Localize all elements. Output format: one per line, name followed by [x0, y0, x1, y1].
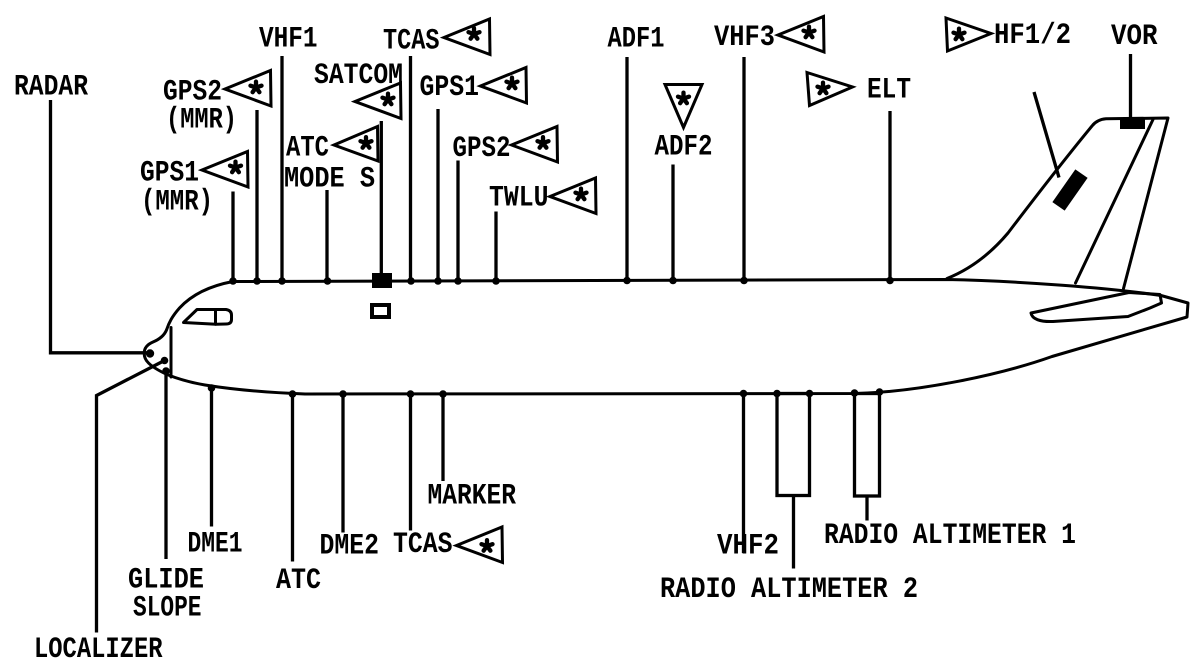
- svg-text:(MMR): (MMR): [141, 186, 213, 220]
- svg-text:TCAS: TCAS: [383, 25, 440, 59]
- svg-text:ADF2: ADF2: [655, 131, 713, 165]
- svg-text:RADIO ALTIMETER 1: RADIO ALTIMETER 1: [824, 519, 1076, 553]
- svg-text:DME2: DME2: [320, 530, 380, 564]
- svg-text:HF1/2: HF1/2: [994, 19, 1071, 53]
- svg-text:ATC: ATC: [276, 564, 321, 598]
- svg-text:DME1: DME1: [188, 528, 243, 562]
- svg-text:VOR: VOR: [1111, 20, 1158, 54]
- svg-text:TCAS: TCAS: [393, 528, 453, 562]
- svg-text:TWLU: TWLU: [489, 182, 549, 216]
- svg-text:SATCOM: SATCOM: [314, 59, 403, 93]
- svg-text:LOCALIZER: LOCALIZER: [34, 633, 163, 666]
- svg-text:RADAR: RADAR: [14, 71, 88, 105]
- svg-text:GPS1: GPS1: [420, 71, 480, 105]
- svg-text:VHF2: VHF2: [717, 530, 779, 564]
- svg-text:ELT: ELT: [867, 74, 911, 108]
- svg-text:ATC: ATC: [286, 132, 329, 166]
- svg-text:SLOPE: SLOPE: [133, 592, 202, 626]
- svg-text:GPS2: GPS2: [453, 132, 511, 166]
- svg-text:(MMR): (MMR): [166, 104, 237, 138]
- svg-text:ADF1: ADF1: [608, 23, 665, 57]
- svg-text:VHF3: VHF3: [714, 21, 775, 55]
- svg-text:MODE S: MODE S: [284, 163, 375, 197]
- svg-text:RADIO ALTIMETER 2: RADIO ALTIMETER 2: [660, 573, 918, 607]
- svg-text:MARKER: MARKER: [428, 480, 517, 514]
- svg-text:VHF1: VHF1: [259, 23, 318, 57]
